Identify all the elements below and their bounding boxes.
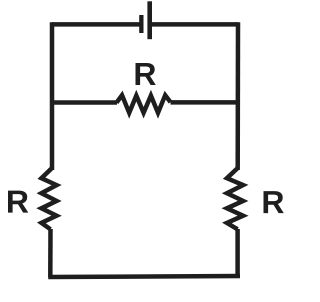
resistor R left [41, 168, 56, 229]
label R left [8, 191, 28, 213]
battery cell B1 [139, 1, 152, 39]
wire middle-left horizontal [52, 100, 117, 105]
wire bottom horizontal [48, 276, 240, 277]
label R right [264, 191, 284, 213]
wire left vertical upper [50, 22, 55, 170]
resistor R middle [117, 95, 171, 113]
battery negative plate (short) [139, 15, 143, 33]
label R middle [136, 63, 156, 85]
resistor R right [227, 168, 243, 229]
wire right vertical upper [235, 22, 240, 170]
wire right vertical lower [235, 229, 240, 276]
wire top-left horizontal [52, 22, 140, 27]
wire middle-right horizontal [171, 100, 238, 105]
wire top-right horizontal [152, 22, 238, 27]
wire left vertical lower [48, 229, 53, 277]
battery positive plate (long) [147, 1, 152, 39]
